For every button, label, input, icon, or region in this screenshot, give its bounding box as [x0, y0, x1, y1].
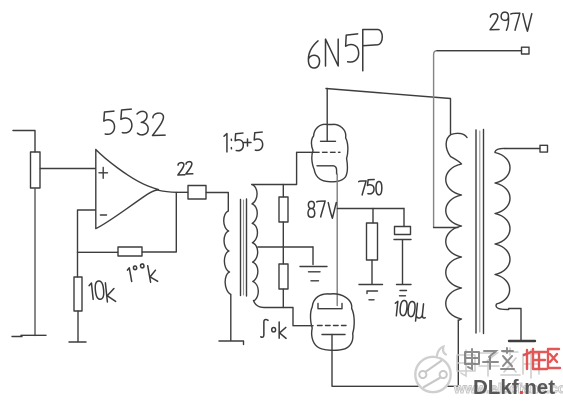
ground C1	[397, 285, 412, 296]
label 22	[178, 162, 193, 175]
red CJK 社区	[524, 349, 560, 369]
T1 secondary winding	[252, 185, 258, 301]
T2 core	[476, 130, 484, 334]
wire op-amp output	[157, 190, 188, 192]
wire T1 secondary bottom to lower grid	[254, 301, 314, 326]
wire feedback right	[142, 192, 176, 252]
wire 10k bottom lead	[77, 311, 79, 342]
label 10k	[89, 281, 116, 303]
op-amp - pin	[100, 214, 106, 216]
wire T1 center tap	[258, 246, 313, 248]
wire 297V anode feed (slanted)	[326, 89, 451, 135]
capacitor C1 100u top plate	[395, 209, 411, 235]
wire T1 secondary top to upper grid	[252, 152, 315, 184]
resistor R-in (input series)	[31, 152, 41, 188]
T1 core	[241, 199, 247, 296]
terminal output	[540, 145, 548, 152]
ghost CJK text line1	[457, 348, 539, 378]
wire T2 secondary top to terminal	[505, 148, 540, 150]
wire input top	[13, 131, 35, 153]
label 750	[359, 179, 382, 194]
dark Dlkf.net	[473, 376, 555, 399]
resistor R-cath 750	[367, 223, 378, 260]
wire T1 primary bottom lead	[230, 295, 232, 341]
ground input	[12, 335, 46, 336]
label 100u	[394, 300, 427, 322]
resistor R-out 22	[188, 186, 206, 200]
ground center tap	[300, 247, 327, 281]
wire grid-divider top lead	[282, 185, 284, 198]
label 1:5+5	[224, 132, 263, 152]
wire grid-divider middle	[282, 222, 284, 264]
op-amp U1 5532 triangle	[96, 150, 159, 229]
ground 750	[359, 285, 383, 300]
label 297V	[490, 12, 532, 31]
wire V2 cathode to output primary bottom	[332, 320, 458, 386]
resistor R-grid1	[279, 197, 288, 222]
WATERMARK elecfans	[415, 347, 563, 400]
resistor R-grid2 50k	[279, 264, 288, 289]
ghost www.elecfans.com	[453, 380, 563, 396]
resistor R-fb 100k	[118, 247, 142, 256]
resistor R-gnd 10k	[74, 277, 82, 311]
label 6N5P	[308, 30, 382, 71]
wire feedback left	[78, 251, 119, 253]
wire inverting input	[78, 210, 96, 252]
V2 anode cup	[318, 304, 342, 309]
capacitor C1 bottom plate	[394, 240, 411, 285]
wire 10k top lead	[77, 252, 79, 277]
V1 anode plate and lead	[321, 89, 336, 142]
label 100k	[127, 264, 158, 283]
label 87V	[308, 201, 336, 218]
V1 grid (dashed)	[315, 151, 341, 153]
wire T2 secondary bottom	[509, 309, 521, 341]
tube V2 lower envelope	[311, 294, 355, 351]
T2 primary winding	[446, 133, 467, 320]
logo circle	[415, 347, 450, 393]
wire R-in to op-amp + input	[40, 168, 95, 170]
T2 secondary winding	[495, 148, 510, 309]
ground T2 secondary	[509, 340, 535, 342]
wire B+ to output center tap	[434, 227, 458, 229]
wire 22 to transformer	[206, 193, 228, 212]
dark CJK text line1	[465, 348, 514, 369]
V2 cathode	[322, 334, 345, 336]
wire V1 cathode down to V2 anode	[336, 174, 338, 306]
wire R-in bottom lead	[34, 188, 36, 336]
tube V1 upper envelope	[311, 124, 347, 181]
wire 750 top lead	[372, 209, 374, 224]
T1 primary winding	[224, 211, 231, 295]
wire 750 bottom lead	[371, 260, 373, 284]
wire 87V rail	[337, 208, 404, 210]
label 50k	[261, 320, 286, 339]
ground 10k	[69, 341, 86, 343]
ground T1 primary	[219, 341, 244, 345]
label 5532	[103, 109, 165, 135]
svg-text:DLkf.net: DLkf.net	[473, 376, 555, 399]
wire grid-divider bottom lead	[282, 289, 284, 308]
terminal 297V	[522, 47, 530, 54]
op-amp + pin	[99, 168, 108, 179]
V1 cathode	[317, 166, 337, 174]
V2 grid (dashed)	[318, 325, 347, 327]
wire B+ 297V	[434, 51, 522, 228]
